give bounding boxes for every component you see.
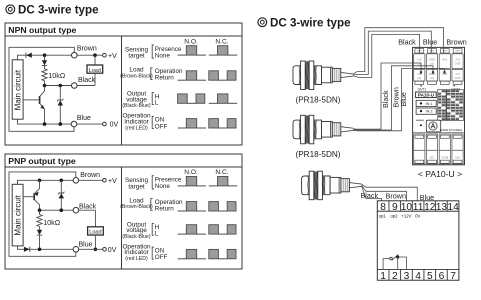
wire: Brown to +V (PNP) [79,179,103,181]
svg-text:Black: Black [398,38,416,47]
svg-text:Indicator: Indicator [124,249,149,256]
svg-text:PA10-U: PA10-U [418,93,435,98]
Blue terminal [73,247,79,253]
Brown terminal [73,178,79,184]
svg-text:0V: 0V [415,214,420,219]
svg-text:< PA10-U >: < PA10-U > [418,169,462,179]
wire: sensor1 black [353,34,420,77]
svg-text:(red LED): (red LED) [125,256,148,262]
NPN output type box [5,23,242,145]
svg-text:(PR18-5DN): (PR18-5DN) [295,96,340,105]
svg-text:OFF: OFF [155,123,168,130]
diode D3 (points right) [24,247,30,252]
wire: sensor3 blue [362,184,418,201]
output (black) line [40,209,74,211]
svg-text:Brown: Brown [446,38,466,47]
svg-text:NO: NO [455,155,460,159]
unit terminal row 2 [414,70,425,82]
junction: zener bottom node PNP [60,208,64,212]
sensor 1 (PR18-5DN) [293,61,353,90]
svg-text:NPN output type: NPN output type [8,25,76,35]
svg-text:IN 1: IN 1 [426,102,433,106]
svg-text:Main circuit: Main circuit [13,69,22,110]
svg-text:13: 13 [436,202,448,213]
svg-text:N.O.: N.O. [184,169,198,176]
wire: sensor2 brown [353,66,433,130]
terminal 0V (PNP) [103,248,107,252]
svg-text:None: None [155,52,171,59]
lower unit body [377,211,459,280]
svg-text:OUT: OUT [454,76,461,80]
PNP main circuit block [12,184,23,246]
transistor Q2 (PNP) [35,180,40,193]
Blue terminal [71,121,77,127]
wire: sensor3 brown [362,185,407,201]
junction: resistor chain on 0V rail [38,248,42,252]
0V rail (blue) [18,246,74,249]
svg-text:OUT: OUT [454,62,461,66]
diode D1 (reverse protection, points left) [25,53,27,58]
diode D2 (vertical, points down) [44,55,46,60]
Brown terminal [72,52,78,58]
heading: DC 3-wire type (right) [258,18,267,27]
svg-text:8: 8 [380,202,386,213]
svg-text:3: 3 [404,271,410,282]
svg-text:14: 14 [447,202,459,213]
junction: load tap on 0V rail [94,248,98,252]
Load box (PNP) [79,210,96,227]
wire: Blue to 0V [77,123,103,125]
Black terminal [73,207,79,213]
wiring sticker grid [438,90,464,121]
svg-text:Black: Black [381,90,390,108]
svg-text:12: 12 [424,202,436,213]
unit terminal row 4 [414,150,425,164]
svg-text:(2): (2) [430,76,434,80]
svg-text:None: None [155,183,171,190]
junction: emitter on +V rail [38,179,42,183]
junction: zener top on +V rail [60,179,64,183]
svg-text:target: target [128,53,145,60]
svg-text:Load: Load [89,68,101,74]
svg-text:MADE IN KOREA: MADE IN KOREA [440,128,462,132]
svg-text:0V: 0V [110,122,119,129]
svg-text:Blue: Blue [79,242,93,249]
svg-text:5: 5 [427,271,433,282]
svg-text:6: 6 [439,271,445,282]
unit terminal row 1 [415,49,424,53]
PNP circuit: enclosure loop wire [9,172,76,256]
terminal +V [103,53,107,57]
NPN main circuit block [12,60,23,119]
svg-text:Black: Black [79,204,97,211]
svg-text:N.C.: N.C. [215,38,228,45]
svg-text:2: 2 [392,271,398,282]
svg-text:IN 2: IN 2 [426,110,433,114]
sensor 3 [302,171,362,200]
svg-text:Return: Return [155,75,174,82]
svg-text:Indicator: Indicator [124,118,149,125]
svg-text:+12V: +12V [401,214,411,219]
svg-text:Return: Return [155,205,174,212]
Black terminal and wire [72,83,78,89]
wire: sensor1 brown [353,28,444,74]
svg-text:DC 3-wire type: DC 3-wire type [18,4,99,17]
svg-text:COM: COM [441,155,449,159]
terminal strip 8-14 [377,201,459,211]
svg-text:11: 11 [413,202,424,213]
svg-text:+V: +V [108,178,117,185]
unit middle faceplate [420,85,422,87]
svg-text:Main circuit: Main circuit [13,194,22,235]
junction: zener top node [59,84,63,88]
svg-text:op1: op1 [379,214,387,219]
resistor 10k (PNP) [39,210,41,214]
junction: load tap on +V wire [93,53,97,57]
svg-text:DC 3-wire type: DC 3-wire type [270,17,351,30]
wire: main circuit top to +V rail [18,55,72,60]
svg-text:Blue: Blue [399,92,408,106]
transistor Q1 (NPN) [40,86,45,97]
logo badge [426,120,440,132]
svg-text:OUT1: OUT1 [418,88,427,92]
svg-text:(1): (1) [417,62,421,66]
svg-text:10kΩ: 10kΩ [48,71,66,80]
Load box [94,55,96,65]
PA10-U controller unit [413,47,465,164]
svg-text:N.C.: N.C. [215,169,228,176]
svg-text:10kΩ: 10kΩ [43,218,61,227]
junction: collector node PNP [38,208,42,212]
node: +V rail junction [43,53,47,57]
svg-text:4: 4 [415,271,421,282]
svg-text:L: L [155,230,159,237]
+V rail (brown) [18,180,74,184]
svg-text:Load: Load [89,230,101,236]
wire: sensor2 black [353,63,421,129]
svg-text:(Black-Blue): (Black-Blue) [122,234,151,240]
heading: DC 3-wire type (left) [6,5,15,14]
svg-text:(Black-Blue): (Black-Blue) [122,103,151,109]
svg-text:Brown: Brown [77,46,97,53]
svg-text:(2): (2) [430,62,434,66]
PNP output type box [5,154,242,269]
output node line [45,85,72,87]
svg-text:IN1: IN1 [442,58,447,62]
svg-text:(Brown-Black): (Brown-Black) [120,73,153,79]
junction: collector node [43,84,47,88]
svg-text:Brown: Brown [80,172,100,179]
0V rail [18,119,72,124]
svg-text:OFF: OFF [155,254,168,261]
junction: zener bottom on 0V rail [59,122,63,126]
svg-text:0V: 0V [108,247,117,254]
diode D4 (vertical, points down) [39,227,41,230]
junction: emitter on 0V rail [43,122,47,126]
NPN circuit: enclosure loop wire [9,47,74,131]
svg-text:L: L [155,100,159,107]
svg-text:(Brown-Black): (Brown-Black) [120,204,153,210]
svg-text:Blue: Blue [77,115,91,122]
terminal 0V [103,122,107,126]
svg-text:(red LED): (red LED) [125,125,148,131]
wire: Blue to 0V (PNP) [79,248,103,250]
wire: sensor1 blue [353,31,431,75]
svg-text:Black: Black [361,191,379,200]
svg-text:Brown: Brown [386,191,406,200]
svg-text:10: 10 [401,202,413,213]
terminal +V (PNP) [103,179,107,183]
svg-text:Blue: Blue [423,38,437,47]
svg-text:N.O.: N.O. [184,38,198,45]
wire to +V [77,54,103,56]
zener diode ZD1 [59,86,61,101]
wire: sensor2 blue [353,69,445,131]
unit terminal row 3 [414,134,425,150]
svg-text:1: 1 [380,271,386,282]
svg-text:PNP output type: PNP output type [8,156,76,166]
wire: sensor3 black [362,186,382,201]
svg-text:(PR18-5DN): (PR18-5DN) [295,150,340,159]
svg-text:(1): (1) [417,76,421,80]
svg-text:9: 9 [392,202,398,213]
svg-text:op2: op2 [390,214,398,219]
zener diode ZD2 [60,180,62,193]
svg-text:+V: +V [108,53,117,60]
svg-text:Black: Black [78,77,96,84]
svg-text:target: target [128,183,145,190]
sensor 2 (PR18-5DN) [293,115,353,144]
relay contact [383,259,390,270]
svg-text:7: 7 [450,271,456,282]
resistor 10k [42,69,47,81]
